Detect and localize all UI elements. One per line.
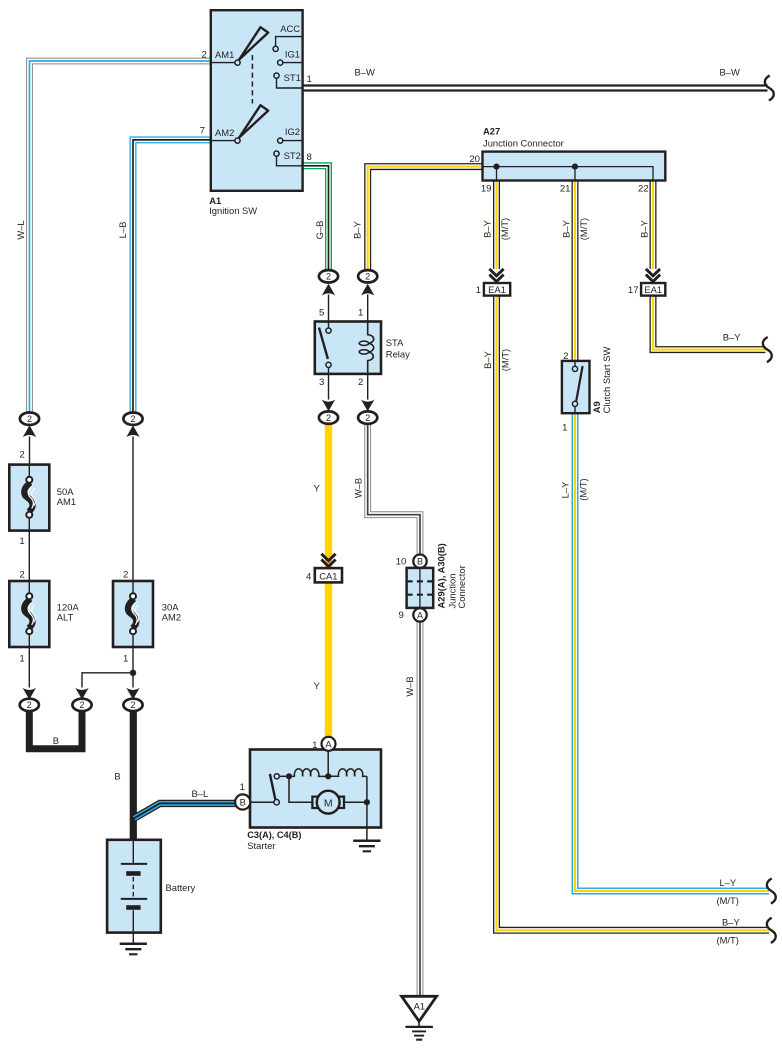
connector arrow W-L: [23, 425, 36, 437]
motor brush left: [312, 797, 318, 808]
svg-text:Relay: Relay: [386, 348, 410, 359]
svg-text:2: 2: [19, 570, 24, 581]
continuation squiggle B-Y bottom: [767, 918, 776, 943]
wire B U-link: [29, 711, 82, 749]
fuse 120A ALT: [9, 581, 49, 647]
connector arrow L-B: [126, 425, 139, 437]
coil 2: [328, 769, 367, 776]
svg-text:1: 1: [476, 285, 481, 296]
svg-text:B: B: [53, 735, 59, 746]
svg-text:B–W: B–W: [355, 67, 375, 78]
svg-text:L–B: L–B: [117, 222, 128, 239]
svg-text:Y: Y: [314, 680, 321, 691]
svg-text:ST2: ST2: [284, 150, 301, 161]
continuation squiggle B-W: [765, 75, 774, 100]
relay switch blade: [319, 328, 328, 359]
svg-text:W–B: W–B: [404, 676, 415, 696]
junction dot motor right: [364, 799, 370, 805]
svg-text:5: 5: [319, 307, 324, 318]
svg-text:B–Y: B–Y: [352, 220, 363, 238]
svg-text:STA: STA: [386, 337, 404, 348]
ground below battery: [120, 944, 147, 955]
svg-text:(M/T): (M/T): [578, 218, 589, 240]
svg-text:Ignition SW: Ignition SW: [209, 205, 257, 216]
svg-text:B–Y: B–Y: [561, 219, 572, 237]
svg-text:1: 1: [358, 307, 363, 318]
switch blade AM2: [239, 105, 268, 137]
wire G-B from ignition SW ST2 pin 8 to STA relay pin 5 connector: [303, 166, 329, 271]
clutch contact bottom: [572, 401, 577, 406]
svg-text:B–Y: B–Y: [723, 332, 741, 343]
lead to terminal A: [327, 751, 329, 777]
wire B-Y from junction connector A27 pin 20 to STA relay pin 1 connector: [368, 167, 483, 271]
svg-text:(M/T): (M/T): [717, 895, 739, 906]
svg-text:A27: A27: [483, 126, 500, 137]
svg-text:21: 21: [560, 184, 571, 195]
switch blade AM1: [239, 27, 268, 59]
svg-text:Starter: Starter: [247, 840, 275, 851]
lead fuse ALT to connector: [28, 647, 30, 688]
svg-text:IG2: IG2: [285, 126, 300, 137]
svg-text:B–Y: B–Y: [482, 350, 493, 368]
svg-text:ACC: ACC: [280, 23, 300, 34]
wire W-B from junction connector A29 pin 9 to ground A1: [417, 622, 424, 996]
svg-text:G–B: G–B: [314, 221, 325, 240]
ground stem A1: [418, 1021, 420, 1027]
connector arrow branch out: [75, 688, 88, 700]
fuse 30A AM2: [113, 581, 153, 647]
svg-text:B: B: [240, 797, 246, 808]
battery internal symbol: [121, 840, 147, 944]
junction dot pin19: [493, 164, 499, 170]
relay pin 5 lead: [328, 295, 330, 322]
chevron into EA1 pin 1: [489, 269, 503, 282]
svg-text:7: 7: [200, 126, 205, 137]
chevron into CA1: [321, 554, 335, 567]
A29 grid: [419, 568, 421, 608]
connector arrow ALT out: [23, 688, 36, 700]
svg-text:(M/T): (M/T): [717, 935, 739, 946]
svg-text:AM2: AM2: [162, 611, 181, 622]
connector oval AM2 out: [123, 699, 142, 711]
lead fuse AM2 to connector: [132, 647, 134, 688]
connector oval below relay pin 3: [319, 411, 338, 423]
relay coil: [368, 322, 374, 374]
svg-text:3: 3: [319, 377, 324, 388]
svg-text:22: 22: [638, 184, 649, 195]
svg-text:L–Y: L–Y: [720, 877, 737, 888]
svg-text:A1: A1: [414, 1001, 425, 1012]
EA1 box pin 17: [641, 283, 665, 296]
wire B battery feed: [130, 711, 137, 840]
contact AM2: [211, 140, 235, 142]
svg-text:B–Y: B–Y: [482, 219, 493, 237]
svg-text:W–B: W–B: [353, 478, 364, 498]
svg-text:ST1: ST1: [284, 72, 301, 83]
svg-text:A9: A9: [591, 401, 602, 413]
relay switch contact top: [328, 322, 330, 328]
junction dot pin21: [572, 164, 578, 170]
connector oval below relay pin 2: [358, 411, 377, 423]
contact IG2: [283, 140, 303, 142]
svg-text:B: B: [114, 771, 120, 782]
connector oval L-B: [123, 413, 142, 425]
svg-text:1: 1: [19, 536, 24, 547]
contact ST1: [277, 78, 303, 88]
svg-text:Junction Connector: Junction Connector: [483, 138, 564, 149]
wire B-Y junction connector A27 pin 22 to EA1 pin 17: [650, 181, 657, 269]
ignition switch A1 box: [211, 10, 303, 191]
ground triangle A1: [402, 996, 437, 1021]
svg-text:A: A: [417, 610, 423, 620]
svg-text:EA1: EA1: [644, 284, 662, 295]
wire B-Y from EA1 pin 17 down and right to page edge: [653, 296, 766, 350]
continuation squiggle B-Y right: [763, 337, 772, 362]
connector arrow above relay pin 1: [361, 284, 374, 296]
starter internals: [250, 751, 367, 803]
starter ground lead: [366, 805, 368, 841]
junction dot branch: [130, 670, 136, 676]
contact IG1: [283, 62, 303, 64]
relay pin 3 lead: [328, 374, 330, 400]
svg-text:CA1: CA1: [319, 570, 337, 581]
connector oval ALT out: [20, 699, 39, 711]
connector oval branch out: [72, 699, 91, 711]
motor M circle: [317, 791, 340, 814]
svg-text:8: 8: [307, 152, 312, 163]
svg-text:B: B: [417, 557, 423, 567]
solenoid contact bottom: [274, 800, 279, 805]
A27 internal bus: [483, 167, 653, 181]
svg-text:M: M: [324, 797, 333, 809]
svg-text:19: 19: [481, 184, 492, 195]
lead between fuses: [28, 531, 30, 581]
lead contact to coil junction: [279, 775, 295, 777]
mechanical link dashed: [251, 55, 253, 104]
branch wire to second connector: [82, 673, 133, 688]
connector oval W-L: [20, 413, 39, 425]
terminal B circle: [235, 794, 250, 809]
connector oval above relay pin 5: [319, 270, 338, 282]
clutch blade: [576, 366, 582, 401]
wire W-L from ignition SW AM1 pin 2 to fuse AM1 connector: [30, 61, 212, 413]
svg-text:2: 2: [19, 450, 24, 461]
lead down to motor left: [289, 776, 312, 802]
svg-text:(M/T): (M/T): [578, 478, 589, 500]
svg-text:10: 10: [396, 557, 407, 568]
motor brush right: [338, 797, 344, 808]
connector arrow below relay pin 3: [322, 400, 335, 412]
svg-text:ALT: ALT: [57, 611, 74, 622]
wire B-Y junction connector A27 pin 21 to clutch start SW pin 2: [572, 181, 579, 361]
svg-text:W–L: W–L: [15, 220, 26, 239]
svg-text:B–Y: B–Y: [722, 917, 740, 928]
pin 9 circle A: [413, 608, 426, 621]
solenoid blade: [270, 774, 275, 799]
svg-text:2: 2: [358, 377, 363, 388]
svg-text:1: 1: [312, 740, 317, 751]
svg-text:Clutch Start SW: Clutch Start SW: [601, 346, 612, 413]
chevron into EA1 pin 17: [646, 269, 660, 282]
svg-text:20: 20: [469, 154, 480, 165]
connector oval above relay pin 1: [358, 270, 377, 282]
junction dot coil centre: [325, 773, 331, 779]
svg-text:AM2: AM2: [215, 127, 234, 138]
svg-text:Y: Y: [314, 483, 321, 494]
battery box: [107, 840, 161, 933]
svg-text:A29(A), A30(B): A29(A), A30(B): [435, 543, 446, 608]
contact ST2: [277, 156, 303, 166]
clutch start SW box: [562, 361, 590, 413]
relay pin 2 lead: [367, 374, 369, 400]
svg-text:Connector: Connector: [456, 565, 467, 608]
junction connector A27 box: [483, 152, 666, 181]
svg-text:B–Y: B–Y: [639, 219, 650, 237]
connector arrow AM2 out: [126, 688, 139, 700]
svg-text:1: 1: [562, 423, 567, 434]
connector arrow below relay pin 2: [361, 400, 374, 412]
wire L-B from ignition SW AM2 pin 7 to fuse AM2 connector: [133, 140, 212, 413]
terminal A circle: [322, 737, 336, 751]
fuse 50A AM1: [9, 465, 49, 531]
continuation squiggle L-Y: [767, 878, 776, 903]
lead from B to solenoid contact: [250, 801, 273, 803]
svg-text:2: 2: [123, 570, 128, 581]
wire B-W from ignition SW ST1 pin 1 to page edge: [303, 84, 768, 91]
relay pin 1 lead: [367, 295, 369, 322]
CA1 box: [315, 568, 342, 582]
svg-text:1: 1: [123, 654, 128, 665]
svg-text:1: 1: [307, 74, 312, 85]
wire W-B from STA relay pin 2 to junction connector A29 pin 10: [368, 423, 420, 554]
STA relay box: [315, 322, 381, 374]
junction dot coil left: [286, 773, 292, 779]
wire B-Y from EA1 pin 1 down and right to page edge: [497, 296, 770, 931]
svg-text:C3(A), C4(B): C3(A), C4(B): [247, 830, 301, 840]
wire Y from STA relay pin 3 to starter terminal A: [325, 423, 332, 737]
svg-text:(M/T): (M/T): [499, 218, 510, 240]
lead to fuse AM1: [29, 437, 31, 465]
pin 10 circle B: [413, 555, 426, 568]
connector arrow above relay pin 5: [322, 284, 335, 296]
contact AM1: [211, 62, 235, 64]
svg-text:AM1: AM1: [57, 496, 76, 507]
relay switch contact bottom: [326, 362, 331, 367]
starter box: [250, 750, 381, 828]
ground starter: [353, 841, 380, 852]
svg-text:Battery: Battery: [166, 882, 196, 893]
svg-text:B–W: B–W: [720, 67, 740, 78]
svg-text:17: 17: [628, 285, 639, 296]
svg-text:A: A: [325, 738, 332, 749]
svg-text:2: 2: [201, 49, 206, 60]
clutch contact top: [574, 361, 576, 366]
svg-text:9: 9: [398, 610, 403, 621]
lead motor right: [344, 801, 367, 803]
coil 1: [294, 769, 328, 776]
solenoid contact top: [274, 774, 279, 779]
svg-text:4: 4: [306, 572, 312, 583]
wire L-Y from clutch start SW pin 1 down and right to page edge: [575, 413, 769, 891]
svg-text:B–L: B–L: [192, 788, 209, 799]
svg-text:(M/T): (M/T): [500, 349, 511, 371]
lead to fuse AM2: [132, 437, 134, 582]
wire B-Y junction connector A27 pin 19 to EA1: [493, 181, 500, 269]
lead right side down: [366, 776, 368, 802]
svg-text:IG1: IG1: [285, 48, 300, 59]
contact ACC: [276, 37, 303, 46]
ground lines A1: [406, 1027, 433, 1040]
svg-text:AM1: AM1: [215, 49, 234, 60]
wire B-L branch to starter terminal B: [134, 803, 235, 818]
svg-text:1: 1: [19, 654, 24, 665]
EA1 box pin 1: [484, 283, 510, 296]
A29 box: [407, 568, 434, 608]
svg-text:EA1: EA1: [488, 284, 506, 295]
svg-text:L–Y: L–Y: [560, 481, 571, 498]
svg-text:1: 1: [240, 782, 245, 793]
